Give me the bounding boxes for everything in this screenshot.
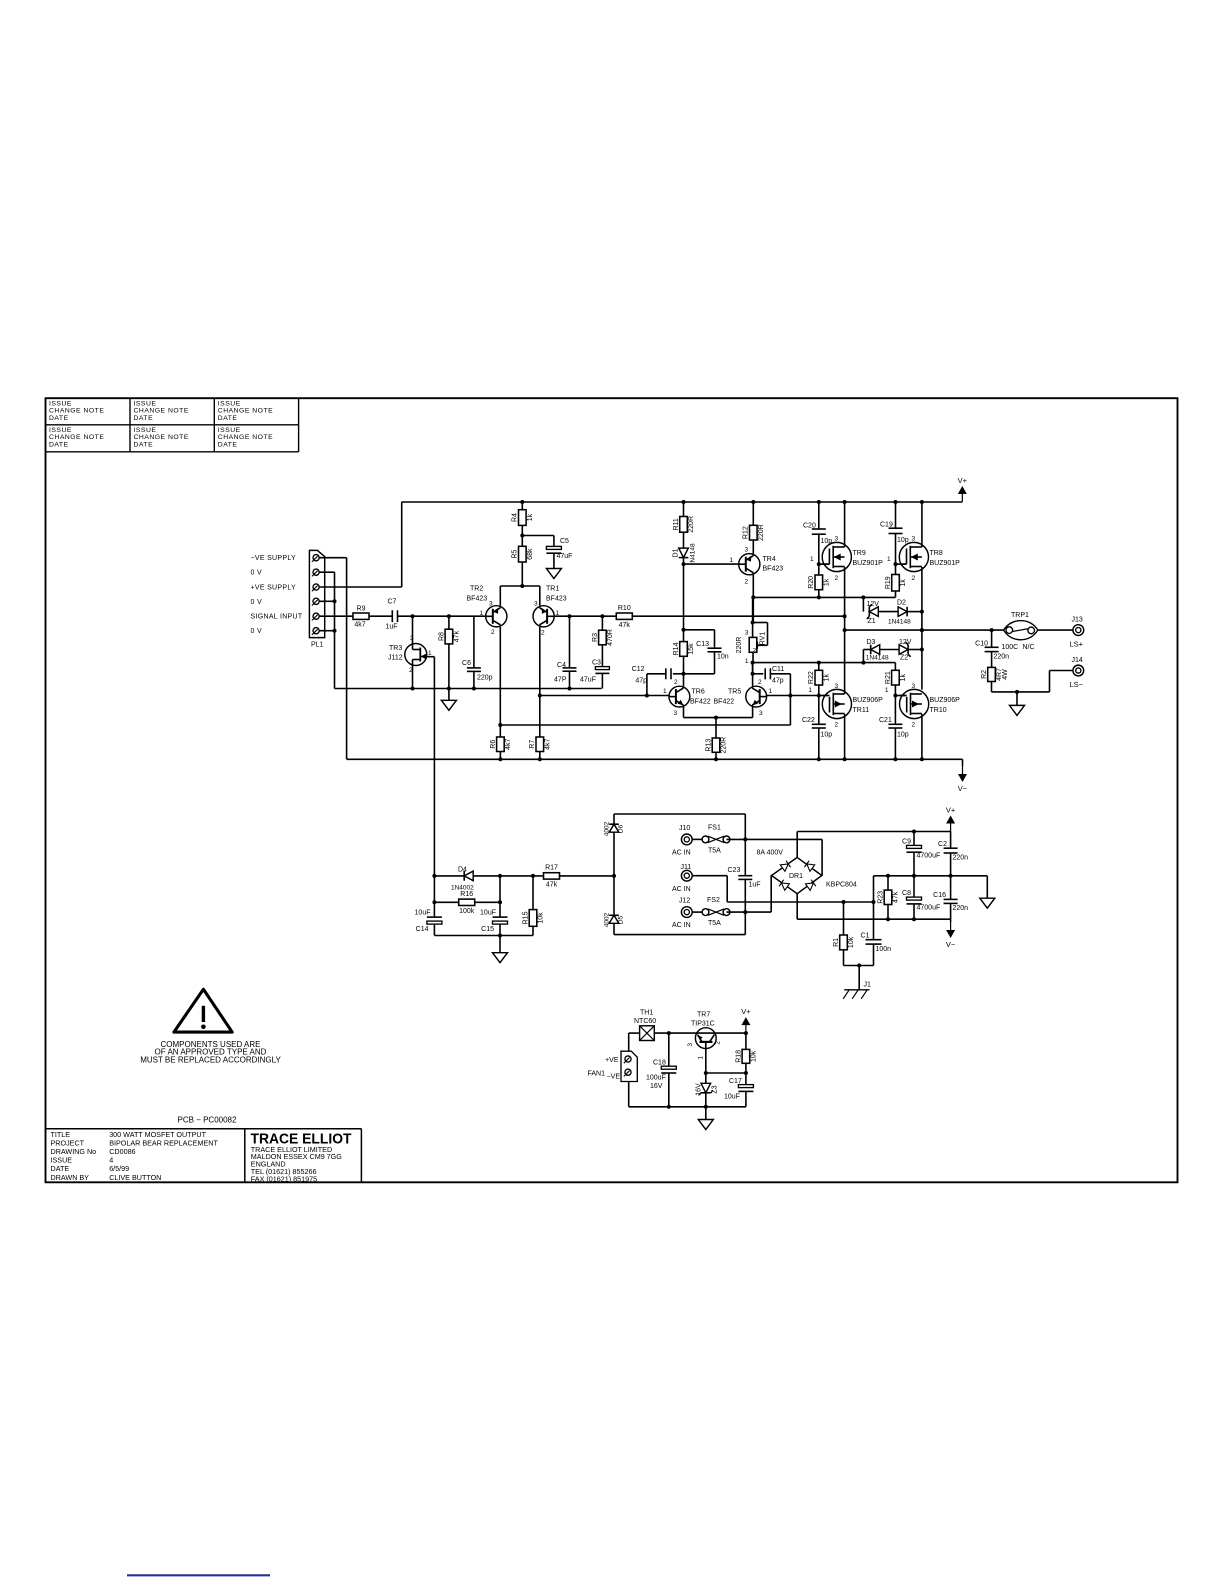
resistor R22 1k <box>818 663 820 671</box>
net V+ fan <box>745 1025 747 1033</box>
resistor R14 <box>683 630 685 642</box>
svg-text:ISSUE: ISSUE <box>134 400 157 407</box>
svg-text:PCB − PC00082: PCB − PC00082 <box>178 1116 237 1125</box>
wire signal input from PL1 pin5 <box>319 615 353 617</box>
capacitor C13 <box>708 647 722 649</box>
svg-text:N4148: N4148 <box>690 543 697 563</box>
svg-text:1k: 1k <box>900 579 907 587</box>
svg-text:C23: C23 <box>728 867 741 874</box>
wire R17 to transformer box <box>559 875 614 877</box>
capacitor C2 220n <box>950 832 952 849</box>
svg-text:C14: C14 <box>416 926 429 933</box>
svg-text:C19: C19 <box>880 522 893 529</box>
capacitor C22 <box>818 696 820 725</box>
svg-text:C1: C1 <box>861 933 870 940</box>
svg-text:1: 1 <box>663 688 667 695</box>
svg-text:DR1: DR1 <box>789 873 803 880</box>
capacitor C5 47uF <box>522 535 554 537</box>
svg-text:1k: 1k <box>527 513 534 521</box>
svg-text:3: 3 <box>759 710 763 717</box>
zener Z1 12V <box>869 607 878 617</box>
transistor TR1 BF423 <box>533 606 554 627</box>
wire feedback rail R10 to TR9 source <box>632 615 844 617</box>
capacitor C14 10uF <box>433 876 435 917</box>
svg-text:R2: R2 <box>981 670 988 679</box>
svg-text:CHANGE NOTE: CHANGE NOTE <box>134 434 189 441</box>
resistor R13 <box>715 718 717 738</box>
svg-text:3: 3 <box>912 536 916 543</box>
diode D2 1N4148 <box>898 607 907 617</box>
wire TR2 collector to TR5 base node <box>500 724 790 726</box>
svg-text:10uF: 10uF <box>724 1094 740 1101</box>
svg-text:100n: 100n <box>876 946 892 953</box>
svg-text:10p: 10p <box>897 537 909 544</box>
svg-text:C2: C2 <box>938 841 947 848</box>
svg-text:DATE: DATE <box>134 415 154 422</box>
title block <box>46 1128 362 1130</box>
svg-text:C20: C20 <box>803 523 816 530</box>
svg-text:0 V: 0 V <box>251 628 262 635</box>
svg-text:V+: V+ <box>958 476 968 485</box>
resistor R1 10k <box>840 935 848 950</box>
svg-text:220R: 220R <box>721 737 728 754</box>
svg-text:1: 1 <box>808 687 812 694</box>
svg-text:3: 3 <box>835 683 839 690</box>
svg-text:CHANGE NOTE: CHANGE NOTE <box>218 408 273 415</box>
net V+ power supply <box>950 824 952 832</box>
wire -VE supply from PL1 pin1 <box>319 557 346 559</box>
resistor R3 <box>601 616 603 630</box>
wire TR4 base node branch <box>682 628 686 632</box>
wire 0V from PL1 pins 2 4 6 <box>319 571 334 573</box>
wire R2 to ground node <box>991 682 993 692</box>
wire TR7 base down <box>705 1048 707 1083</box>
svg-text:C21: C21 <box>879 717 892 724</box>
wire TR11 drain <box>844 630 846 694</box>
svg-text:BUZ901P: BUZ901P <box>853 560 884 567</box>
svg-text:TR8: TR8 <box>930 550 943 557</box>
wire TR10 source <box>921 714 923 759</box>
resistor R17 47k <box>544 873 560 879</box>
svg-text:ISSUE: ISSUE <box>218 400 241 407</box>
svg-text:R14: R14 <box>673 642 680 655</box>
diode D1 1N4148 <box>679 548 689 558</box>
zener Z2 12V <box>899 645 908 655</box>
svg-text:3: 3 <box>674 710 678 717</box>
wire R11 to D1 <box>683 532 685 548</box>
svg-text:Z2: Z2 <box>900 655 908 662</box>
wire TR3 bias node <box>432 874 436 878</box>
svg-text:2: 2 <box>912 575 916 582</box>
svg-text:J112: J112 <box>388 655 403 662</box>
wire bridge - output <box>796 894 798 920</box>
svg-text:15k: 15k <box>688 643 695 655</box>
capacitor C12 <box>673 673 684 675</box>
svg-text:ISSUE: ISSUE <box>218 427 241 434</box>
svg-text:DATE: DATE <box>218 415 238 422</box>
svg-text:C18: C18 <box>653 1060 666 1067</box>
svg-text:C7: C7 <box>388 599 397 606</box>
wire TH1 to TR7 <box>654 1032 695 1034</box>
wire R18 to C17 node <box>745 1063 747 1073</box>
capacitor C3 47uF <box>601 645 603 667</box>
svg-text:12V: 12V <box>867 601 880 608</box>
transistor TR3 J112 <box>405 644 427 666</box>
mosfet TR9 BUZ901P <box>822 542 851 571</box>
svg-text:R15: R15 <box>522 911 529 924</box>
svg-text:C4: C4 <box>557 662 566 669</box>
svg-text:DATE: DATE <box>49 415 69 422</box>
svg-text:1: 1 <box>745 658 749 665</box>
svg-text:0 V: 0 V <box>251 570 262 577</box>
resistor R6 <box>497 737 505 752</box>
svg-text:1uF: 1uF <box>749 882 761 889</box>
svg-text:T5A: T5A <box>708 848 721 855</box>
svg-text:J14: J14 <box>1072 657 1083 664</box>
svg-text:1N4148: 1N4148 <box>866 655 889 662</box>
svg-text:D1: D1 <box>672 548 679 557</box>
svg-text:R1: R1 <box>833 938 840 947</box>
svg-text:1: 1 <box>729 557 733 564</box>
svg-text:D4: D4 <box>458 867 467 874</box>
svg-text:47uF: 47uF <box>580 677 596 684</box>
svg-text:T5A: T5A <box>708 920 721 927</box>
svg-text:100k: 100k <box>459 908 475 915</box>
resistor R7 <box>536 737 544 752</box>
svg-text:TR2: TR2 <box>470 586 483 593</box>
svg-text:10k: 10k <box>848 936 855 948</box>
jack J11 AC IN <box>681 870 692 881</box>
wire C11 right to TR5 base <box>789 674 791 696</box>
svg-text:68k: 68k <box>527 548 534 560</box>
svg-text:3: 3 <box>687 1043 694 1047</box>
svg-text:1: 1 <box>885 687 889 694</box>
svg-text:220p: 220p <box>477 675 493 682</box>
svg-text:BF423: BF423 <box>546 596 567 603</box>
capacitor C19 <box>895 502 897 528</box>
chassis ground J1 <box>858 966 860 990</box>
resistor R11 <box>683 502 685 517</box>
svg-text:4k7: 4k7 <box>505 739 512 750</box>
ground below R2 <box>1016 692 1018 706</box>
wire FAN1 -VE down <box>628 1082 630 1107</box>
wire R7 to V- rail <box>539 752 541 760</box>
svg-text:4002: 4002 <box>604 912 611 927</box>
svg-text:220R: 220R <box>758 524 765 541</box>
svg-text:ISSUE: ISSUE <box>49 400 72 407</box>
resistor R9 <box>353 613 369 619</box>
capacitor C4 <box>569 616 571 668</box>
net V+ (top right) <box>961 494 963 502</box>
svg-text:TR3: TR3 <box>389 645 402 652</box>
svg-text:C12: C12 <box>632 666 645 673</box>
wire TR6 emitter to rail <box>683 707 685 718</box>
svg-text:TR7: TR7 <box>697 1012 710 1019</box>
wire RV1 to rail <box>752 652 754 662</box>
svg-text:J13: J13 <box>1072 617 1083 624</box>
wire TR1 base to feedback rail <box>554 615 616 617</box>
svg-text:1k: 1k <box>823 673 830 681</box>
wire C13 bottom to R14 node <box>714 652 716 674</box>
svg-text:1: 1 <box>698 1056 705 1060</box>
diode D4 1N4002 <box>434 875 464 877</box>
svg-text:R21: R21 <box>885 671 892 684</box>
wire R6 to V- rail <box>499 752 501 760</box>
svg-text:Z3: Z3 <box>712 1085 719 1093</box>
svg-text:R8: R8 <box>438 632 445 641</box>
trimmer RV1 220R <box>749 637 757 652</box>
svg-text:R9: R9 <box>357 605 366 612</box>
svg-text:3: 3 <box>489 601 493 608</box>
svg-text:2: 2 <box>491 629 495 636</box>
capacitor C1 100n <box>873 902 875 940</box>
wire Z3 to rail <box>705 1093 707 1107</box>
svg-text:10p: 10p <box>897 732 909 739</box>
capacitor C6 <box>473 616 475 668</box>
svg-text:10uF: 10uF <box>480 910 496 917</box>
svg-text:C22: C22 <box>802 717 815 724</box>
wire V- rail <box>347 758 963 760</box>
svg-text:DATE: DATE <box>134 441 154 448</box>
wire R22 to TR11 gate <box>818 685 820 696</box>
svg-text:220n: 220n <box>953 855 969 862</box>
transistor TR7 TIP31C <box>695 1028 716 1049</box>
bridge rectifier DR1 KBPC804 <box>772 857 822 893</box>
wire R1 branch <box>843 902 845 935</box>
thermistor TH1 NTC60 <box>640 1026 655 1041</box>
svg-text:DATE: DATE <box>218 441 238 448</box>
svg-text:10k: 10k <box>538 912 545 924</box>
diode D5 4002 <box>609 915 619 923</box>
svg-text:R16: R16 <box>460 891 473 898</box>
svg-text:C8: C8 <box>902 890 911 897</box>
wire D1 to TR4 base node <box>683 558 685 630</box>
svg-text:3: 3 <box>410 635 414 642</box>
svg-text:D3: D3 <box>867 639 876 646</box>
wire emitter rail TR6 TR5 <box>684 717 753 719</box>
transistor TR6 BF422 <box>669 686 690 707</box>
capacitor C11 <box>753 673 764 675</box>
resistor R21 1k <box>894 663 896 671</box>
svg-text:220R: 220R <box>688 516 695 533</box>
wire FS1 to bridge <box>727 838 823 840</box>
svg-text:FAN1: FAN1 <box>587 1071 605 1078</box>
wire R12 to TR4 collector <box>752 540 754 554</box>
wire TR8 source down <box>921 567 923 690</box>
svg-text:2: 2 <box>912 722 916 729</box>
wire R20 to TR4 emitter rail <box>818 590 820 598</box>
ground below R8 <box>448 689 450 701</box>
wire C12 to TR6 base line <box>646 674 648 696</box>
svg-text:C5: C5 <box>560 538 569 545</box>
capacitor C21 <box>894 696 896 725</box>
svg-text:47uF: 47uF <box>557 553 573 560</box>
svg-text:C9: C9 <box>902 839 911 846</box>
svg-text:1: 1 <box>769 688 773 695</box>
svg-text:DRAWN BY: DRAWN BY <box>51 1173 90 1182</box>
wire TR8 drain <box>921 502 923 547</box>
svg-text:−VE: −VE <box>607 1074 621 1081</box>
svg-text:J11: J11 <box>681 864 692 871</box>
svg-text:R6: R6 <box>490 740 497 749</box>
resistor R5 <box>519 546 527 562</box>
svg-text:2: 2 <box>541 630 545 637</box>
svg-text:N/C: N/C <box>1023 644 1035 651</box>
mosfet TR10 BUZ906P <box>900 689 929 718</box>
transformer secondary box <box>614 813 745 815</box>
svg-text:4k7: 4k7 <box>544 739 551 750</box>
svg-text:47P: 47P <box>554 677 567 684</box>
wire V+ rail <box>402 501 963 503</box>
wire TR6 base line <box>540 695 669 697</box>
svg-text:V+: V+ <box>946 806 956 815</box>
transistor TR4 BF423 <box>739 554 760 575</box>
svg-text:47k: 47k <box>619 622 631 629</box>
svg-text:TR5: TR5 <box>728 689 741 696</box>
wire fan bottom rail <box>629 1106 746 1108</box>
svg-text:TH1: TH1 <box>640 1010 653 1017</box>
svg-text:TR1: TR1 <box>546 586 559 593</box>
svg-text:R20: R20 <box>808 576 815 589</box>
svg-text:BF423: BF423 <box>763 566 784 573</box>
wire TR7 to V+ node <box>716 1032 746 1034</box>
svg-text:3: 3 <box>534 601 538 608</box>
svg-text:R4: R4 <box>512 513 519 522</box>
svg-text:3: 3 <box>745 547 749 554</box>
svg-text:NTC60: NTC60 <box>634 1018 656 1025</box>
svg-text:MUST BE REPLACED ACCORDINGLY: MUST BE REPLACED ACCORDINGLY <box>140 1055 281 1064</box>
transistor TR2 BF423 <box>486 606 507 627</box>
svg-text:470R: 470R <box>607 629 614 646</box>
svg-text:R23: R23 <box>877 891 884 904</box>
svg-text:D5: D5 <box>618 915 625 924</box>
transistor TR5 BF422 <box>746 686 767 707</box>
wire +VE supply from PL1 pin3 to V+ rail <box>319 586 402 588</box>
capacitor C16 220n <box>950 876 952 900</box>
issue change note table <box>46 398 299 452</box>
svg-text:0 V: 0 V <box>251 599 262 606</box>
capacitor C17 10uF <box>745 1073 747 1085</box>
svg-text:DATE: DATE <box>49 441 69 448</box>
svg-text:4700uF: 4700uF <box>917 905 941 912</box>
svg-text:TR4: TR4 <box>763 556 776 563</box>
svg-text:10k: 10k <box>751 1050 758 1062</box>
jack J12 AC IN <box>681 907 692 918</box>
drawing frame border <box>46 398 1178 1182</box>
svg-text:D2: D2 <box>897 600 906 607</box>
svg-text:R22: R22 <box>808 671 815 684</box>
resistor R4 <box>521 502 523 510</box>
resistor R8 <box>448 616 450 629</box>
svg-text:J1: J1 <box>864 982 872 989</box>
svg-text:2: 2 <box>745 579 749 586</box>
wire D2 to TR8 source <box>907 611 922 613</box>
resistor R12 <box>752 502 754 525</box>
svg-text:V−: V− <box>946 940 956 949</box>
capacitor C15 10uF <box>499 876 501 917</box>
wire R21 to TR10 gate <box>894 685 896 696</box>
jack J10 AC IN <box>681 834 692 845</box>
jack J13 <box>1073 625 1084 636</box>
ground below C5 <box>546 569 561 579</box>
svg-text:C6: C6 <box>462 660 471 667</box>
wire signal rail R9 to C7 <box>369 615 392 617</box>
fuse FS2 T5A <box>692 911 702 913</box>
wire FAN1 +VE up <box>628 1033 630 1051</box>
diode D6 4002 <box>609 824 619 832</box>
svg-text:FS1: FS1 <box>708 825 721 832</box>
wire TR5 base line right <box>767 695 828 697</box>
svg-text:TR9: TR9 <box>853 550 866 557</box>
svg-text:100C: 100C <box>1002 644 1019 651</box>
wire R1 C1 join <box>843 950 845 966</box>
svg-text:R19: R19 <box>885 576 892 589</box>
svg-text:4002: 4002 <box>604 821 611 836</box>
wire C7 to TR2 base <box>398 615 486 617</box>
capacitor C23 1uF <box>738 875 752 877</box>
svg-text:1N4148: 1N4148 <box>888 619 911 626</box>
mosfet TR8 BUZ901P <box>899 542 928 571</box>
wire Z1 branch <box>862 597 864 611</box>
svg-text:LS−: LS− <box>1070 680 1084 689</box>
svg-text:J12: J12 <box>679 898 690 905</box>
svg-text:J10: J10 <box>679 825 690 832</box>
svg-text:R18: R18 <box>735 1050 742 1063</box>
svg-text:RV1: RV1 <box>760 632 767 646</box>
svg-text:4k7: 4k7 <box>354 622 365 629</box>
svg-text:R17: R17 <box>545 865 558 872</box>
svg-text:220R: 220R <box>736 637 743 654</box>
diode D3 1N4148 <box>871 645 880 655</box>
warning triangle <box>174 989 232 1032</box>
svg-text:AC IN: AC IN <box>672 922 691 929</box>
wire TR4 collector to RV1 <box>752 597 754 637</box>
svg-text:220n: 220n <box>994 654 1010 661</box>
svg-text:47k: 47k <box>893 891 900 903</box>
svg-text:4700uF: 4700uF <box>917 853 941 860</box>
svg-text:4W: 4W <box>1002 669 1009 680</box>
svg-text:R3: R3 <box>592 633 599 642</box>
svg-text:C10: C10 <box>975 641 988 648</box>
wire Z1 to D2 <box>878 611 897 613</box>
resistor R15 10k <box>532 876 534 910</box>
svg-text:TRP1: TRP1 <box>1011 612 1029 619</box>
wire centre rail <box>874 875 988 877</box>
capacitor C10 <box>991 630 993 647</box>
resistor R19 1k <box>895 564 897 574</box>
wire R13 to V- rail <box>715 752 717 759</box>
svg-text:2: 2 <box>674 679 678 686</box>
wire TR1 collector to R7 <box>539 627 541 737</box>
wire D4 to C15 node <box>473 875 544 877</box>
svg-text:C13: C13 <box>696 641 709 648</box>
resistor R2 4R7 4W <box>988 667 996 681</box>
wire TR3 gate to bias network <box>427 656 435 658</box>
wire R4 to R5 junction <box>521 525 523 546</box>
wire TR3 source to 0V rail <box>412 665 414 688</box>
resistor R10 <box>616 613 632 619</box>
net V- power supply <box>950 919 952 922</box>
svg-text:47k: 47k <box>454 630 461 642</box>
wire R14 to TR6 collector node <box>683 656 685 686</box>
svg-text:1: 1 <box>810 556 814 563</box>
svg-text:R10: R10 <box>618 605 631 612</box>
svg-text:220n: 220n <box>953 905 969 912</box>
wire TR4 emitter down <box>752 575 754 623</box>
svg-text:47p: 47p <box>772 678 784 685</box>
svg-text:KBPC804: KBPC804 <box>826 882 857 889</box>
svg-text:Z1: Z1 <box>868 618 876 625</box>
